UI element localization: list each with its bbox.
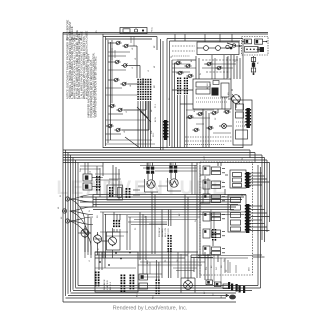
oven lamp circle A	[78, 226, 89, 241]
control module lower right	[228, 195, 246, 232]
wire bus mid 4	[63, 155, 262, 240]
wire section B stubs mid	[100, 222, 167, 236]
wire bottom bus 1	[78, 165, 258, 286]
wire terminal fanout	[70, 195, 93, 259]
wire bottom right runs	[198, 256, 252, 274]
wire dashed runs lower	[185, 137, 232, 145]
separator wire bundle	[161, 39, 164, 150]
control relay row RC1	[203, 166, 225, 175]
svg-text:W: W	[195, 220, 197, 222]
label cluster mid text	[159, 227, 170, 237]
connector P3 grid	[184, 78, 188, 95]
svg-text:P10: P10	[153, 296, 155, 299]
oven lamp OL1	[219, 124, 232, 129]
convection motor M2	[168, 166, 182, 192]
connector P2 grid	[177, 78, 181, 95]
wire oven circuit mesh	[172, 55, 234, 148]
latch box right	[233, 100, 252, 145]
svg-text:BK·W: BK·W	[155, 117, 157, 122]
connector P4 strip right	[245, 108, 251, 128]
label scattered B	[82, 195, 226, 264]
fan motor M1	[145, 167, 159, 193]
relay K2 box with grid	[107, 181, 123, 200]
frame top border	[63, 32, 268, 34]
component box P9 on top border	[120, 28, 147, 34]
label top left tick	[96, 30, 98, 33]
door lock dashed box	[242, 37, 269, 56]
wire horizontal runs y252-258	[95, 252, 198, 258]
surface switch pair SW-A	[114, 41, 129, 48]
wire section B verticals	[93, 163, 208, 281]
wire diagonal crossing	[125, 107, 151, 148]
svg-text:P8: P8	[165, 260, 167, 262]
wire connector P2 P3 drops	[178, 95, 187, 148]
wire bus mid 7	[63, 163, 270, 223]
control module upper right	[230, 170, 246, 188]
connector P5 grid	[168, 235, 172, 252]
svg-text:H4: H4	[130, 85, 132, 87]
clock small circles	[226, 44, 236, 49]
svg-text:BU L1 OV: BU L1 OV	[165, 227, 167, 237]
component cluster BL1	[137, 260, 148, 297]
lock motor circle C	[107, 228, 121, 250]
svg-text:P9 CL: P9 CL	[152, 27, 154, 32]
svg-text:P7: P7	[242, 194, 244, 196]
footer text rendered by	[113, 306, 188, 312]
component row right parts	[204, 280, 230, 298]
wire extra section A left	[106, 37, 156, 145]
wire bottom bus 3	[73, 290, 252, 292]
oven switch SW-G	[174, 61, 191, 68]
wire section B stubs upper	[95, 166, 120, 197]
wire left bundle	[66, 150, 79, 296]
label left box rows	[124, 48, 134, 133]
svg-text:P1·3: P1·3	[155, 104, 157, 108]
connector dark strip left	[163, 120, 169, 140]
oven circuit box outline	[167, 39, 243, 149]
connector teeth lower mid B	[130, 275, 135, 290]
wire bus mid 1	[103, 147, 243, 149]
svg-text:GY DO: GY DO	[168, 228, 170, 235]
svg-text:L1: L1	[89, 260, 91, 262]
oven switch SW-K	[192, 126, 213, 132]
connector teeth pair right	[126, 188, 141, 198]
svg-text:W: W	[89, 210, 91, 212]
svg-text:LINE W R: LINE W R	[107, 280, 109, 290]
door lock switch DS2	[255, 39, 268, 44]
control relay row RC5	[203, 229, 225, 238]
wire arrow to door lock	[227, 43, 242, 47]
junction dots lower	[99, 252, 131, 266]
connector grid lower left	[113, 220, 120, 227]
oven switch pair SW-L	[205, 62, 222, 70]
label clock line	[152, 27, 154, 32]
oven switch SW-I	[186, 112, 203, 119]
wire control internal	[200, 162, 228, 262]
wire right box verticals extra	[228, 56, 240, 79]
wire bus mid 6	[63, 160, 267, 232]
label mid right	[204, 155, 244, 196]
component cluster BL2	[153, 260, 160, 299]
label terminals	[58, 195, 63, 219]
svg-text:L2: L2	[148, 70, 150, 72]
connector grid K1 out	[96, 176, 100, 191]
svg-text:VERIFY PROPER OPERATION AFTER: VERIFY PROPER OPERATION AFTER SERVICING.	[94, 56, 98, 118]
svg-text:P22 BK W: P22 BK W	[159, 228, 161, 237]
svg-text:L5: L5	[126, 111, 128, 113]
oven switch SW-J	[210, 110, 230, 115]
electronic oven control dashed box	[200, 162, 253, 275]
fuse F1 chain	[251, 56, 259, 75]
wire section B vertical pair mid	[127, 215, 130, 250]
connector teeth lower mid A	[121, 275, 126, 292]
wire bottom bus 4	[71, 292, 237, 294]
wire nested corners bottom middle	[191, 255, 213, 278]
label switch rows	[151, 45, 156, 134]
terminal node L2	[65, 219, 69, 223]
label grid drop column	[153, 104, 157, 137]
wire right box mesh upper extra	[202, 55, 238, 79]
svg-text:RD L1: RD L1	[210, 84, 212, 89]
control relay row RC4	[203, 212, 225, 221]
connector P8 strip	[95, 272, 100, 287]
wire dashed runs upper	[172, 46, 195, 56]
wire extra section B lower	[95, 252, 236, 284]
svg-text:W·1: W·1	[216, 267, 218, 270]
terminal node L1	[62, 209, 66, 213]
label oven module text	[207, 83, 212, 89]
sub box lower left	[95, 252, 138, 292]
svg-text:P12: P12	[109, 181, 111, 184]
wire connector stubs right	[251, 173, 270, 231]
label control 090	[249, 267, 251, 271]
label scattered A	[135, 56, 237, 120]
svg-text:Rendered by LeadVenture, Inc.: Rendered by LeadVenture, Inc.	[113, 306, 188, 312]
control bottom connector grid	[212, 229, 216, 241]
motor symbol M3	[228, 94, 240, 108]
wire right box stubs	[172, 60, 196, 72]
wire bottom bus 6	[66, 297, 227, 299]
connector P1 grid	[137, 79, 151, 100]
oven module box	[193, 79, 231, 109]
svg-text:W: W	[200, 73, 202, 75]
svg-text:P6: P6	[242, 158, 244, 160]
surface switch pair SW-D	[108, 104, 123, 112]
svg-text:P14: P14	[206, 267, 208, 270]
oven switch SW-H	[176, 71, 193, 78]
wire section A left box outline	[103, 34, 157, 148]
connector cluster bottom right dark	[228, 282, 245, 293]
wire extra section B mid	[100, 212, 248, 224]
wire left area verticals extra	[85, 215, 91, 258]
surface switch pair SW-B	[113, 60, 128, 67]
svg-text:BK W2: BK W2	[207, 83, 209, 89]
svg-text:H6: H6	[124, 131, 126, 133]
wire bus mid 2	[63, 150, 250, 158]
label bottom right cluster	[206, 265, 228, 272]
label lower box text	[104, 279, 112, 290]
surface switch pair SW-E	[106, 124, 121, 132]
door lock motor row	[245, 47, 265, 53]
svg-text:H2: H2	[132, 48, 134, 50]
svg-text:L3: L3	[132, 67, 134, 69]
svg-text:BK-1: BK-1	[137, 293, 139, 297]
wire connector P1 drops	[138, 101, 151, 148]
wire section B horizontals upper	[140, 166, 197, 172]
relay K1 cluster	[80, 168, 101, 190]
surface switch pair SW-C	[112, 78, 127, 86]
notes text block	[65, 19, 97, 117]
terminal node N	[65, 197, 69, 201]
svg-text:P5: P5	[135, 228, 137, 230]
wire bus mid 3	[63, 153, 255, 163]
connector P7 strip lower	[245, 204, 251, 233]
clock assembly box	[197, 42, 239, 55]
connector P6 strip upper	[245, 172, 251, 188]
wire bottom bus 5 with arrow	[68, 294, 236, 300]
wire surface switch feeds	[106, 40, 149, 143]
svg-text:P2: P2	[169, 98, 171, 100]
wire control area verticals	[192, 163, 214, 230]
wire section B mesh left	[81, 212, 146, 260]
wire extra section A right	[172, 55, 231, 133]
wire bottom bus 2	[76, 167, 261, 288]
svg-text:P4: P4	[171, 56, 173, 58]
svg-text:H1: H1	[135, 58, 137, 60]
wire bus section B	[80, 195, 246, 210]
control relay row RC3	[203, 194, 225, 203]
wire bottom stubs	[140, 252, 181, 278]
wire left box stubs	[106, 48, 131, 134]
wire extra section B upper	[80, 163, 173, 187]
oven lamp circle B	[94, 232, 102, 247]
frame bottom border	[63, 301, 236, 303]
control relay row RC6	[203, 246, 225, 255]
wire stubs control box bottom right	[253, 255, 265, 257]
wire connector P5 leads	[168, 210, 171, 279]
door lock switch DS1	[242, 39, 252, 44]
wire bus mid 5	[63, 158, 265, 243]
wire top verticals right box	[175, 34, 232, 42]
svg-text:RD·2: RD·2	[153, 133, 155, 137]
control relay row RC2	[203, 180, 225, 189]
oven light OL4	[181, 272, 195, 293]
frame left border wire	[62, 32, 64, 302]
